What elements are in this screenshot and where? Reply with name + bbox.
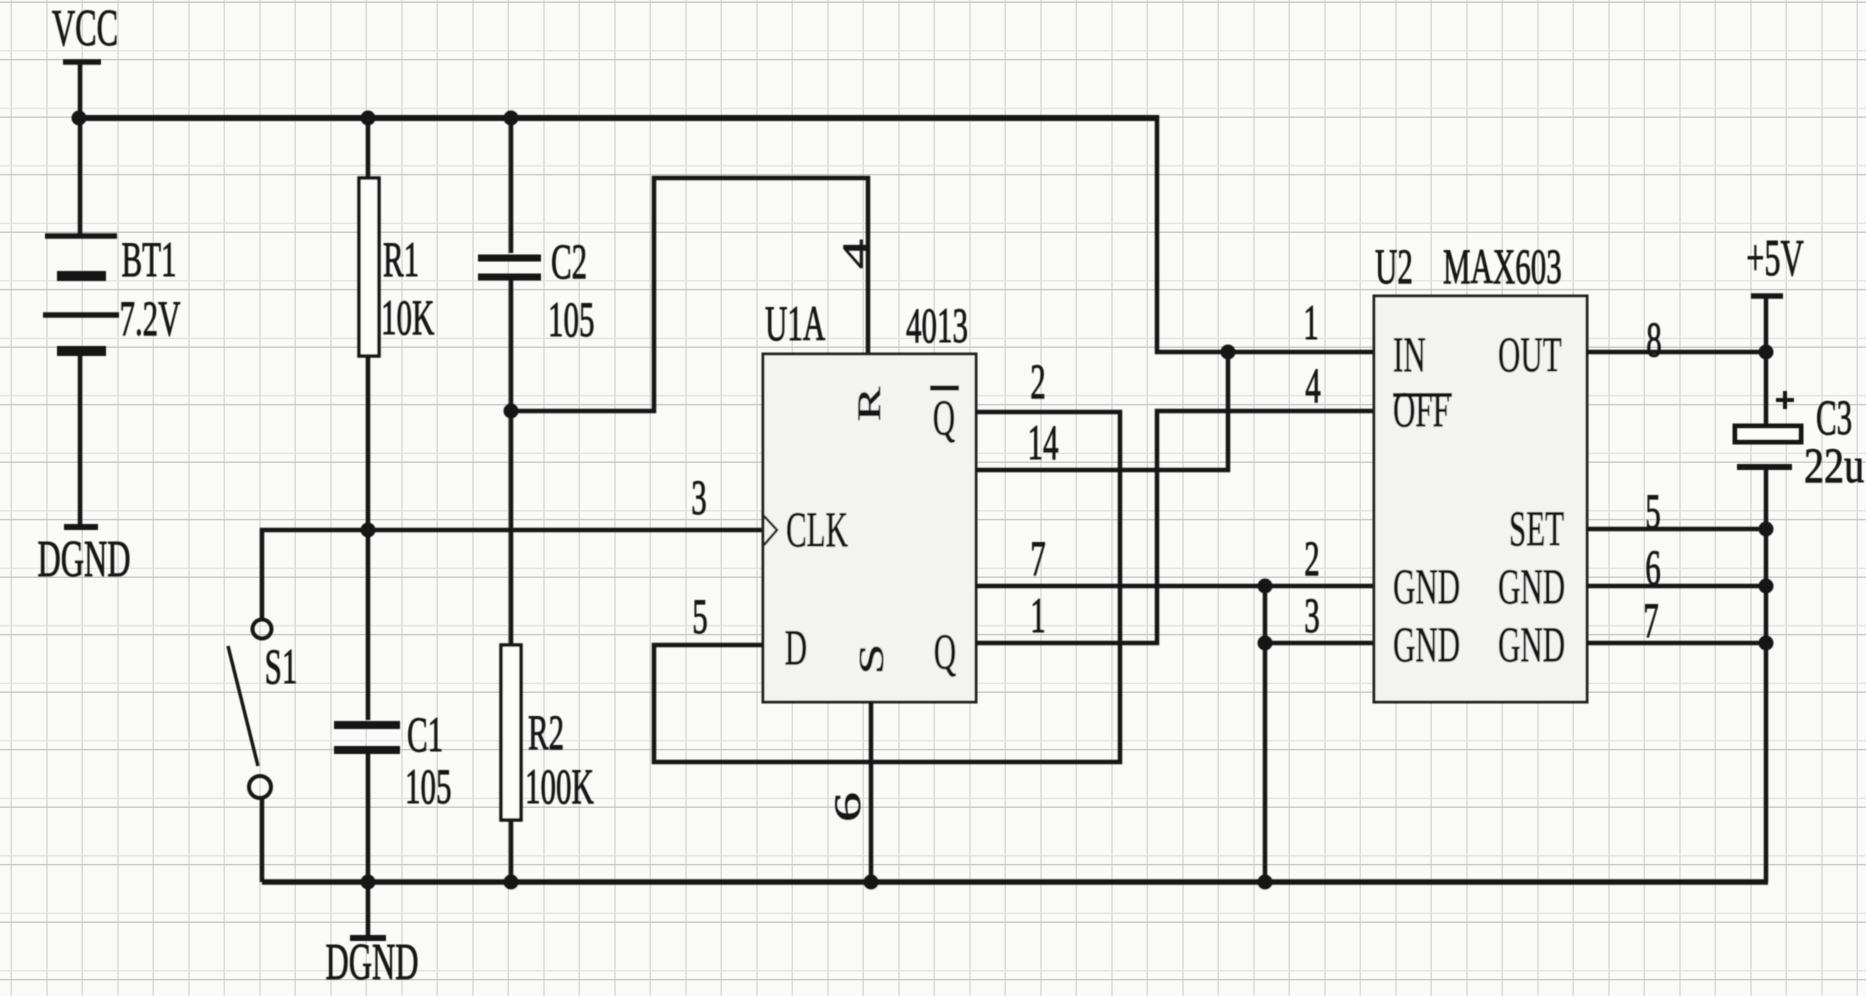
svg-text:GND: GND — [1393, 559, 1460, 614]
svg-text:OFF: OFF — [1393, 382, 1450, 437]
ground DGND bottom — [325, 933, 418, 991]
svg-text:3: 3 — [691, 470, 706, 525]
junction pin7-gnd-vertical — [1258, 579, 1273, 594]
svg-text:100K: 100K — [525, 759, 594, 814]
junction pin6-+5Vline — [1759, 579, 1774, 594]
wire rail to R1 — [366, 118, 371, 178]
pin name OFF with overline — [1393, 382, 1452, 437]
svg-text:GND: GND — [1498, 559, 1565, 614]
wire +5V to C3 — [1764, 352, 1769, 424]
junction S-bottom-rail — [864, 875, 879, 890]
junction gnd vertical bottom rail — [1258, 875, 1273, 890]
svg-text:DGND: DGND — [325, 933, 418, 991]
svg-text:C2: C2 — [551, 234, 587, 289]
junction C1-bottom-rail — [361, 875, 376, 890]
wire VCC drop to U2 IN — [1157, 115, 1374, 352]
wire U1A pin7 to U2 GND pin2 — [976, 584, 1374, 589]
svg-text:D: D — [785, 620, 807, 675]
capacitor C1 — [334, 725, 400, 750]
svg-text:BT1: BT1 — [121, 232, 176, 287]
svg-text:Q: Q — [933, 390, 955, 445]
svg-text:10K: 10K — [381, 290, 434, 345]
svg-text:8: 8 — [1646, 312, 1661, 367]
wire rail to C2 — [509, 118, 514, 253]
svg-text:4: 4 — [1305, 358, 1321, 413]
svg-text:R1: R1 — [383, 232, 419, 287]
wire CLK line (pin 3) — [262, 530, 763, 618]
resistor R2 — [501, 645, 521, 820]
svg-text:U1A: U1A — [765, 296, 825, 351]
switch S1 — [228, 620, 297, 799]
svg-text:2: 2 — [1030, 354, 1045, 409]
junction pin14-IN — [1221, 345, 1236, 360]
wire C2 junction to U1A R input (pin 4) — [511, 178, 868, 411]
wire S1 to bottom rail — [260, 798, 265, 882]
wire U2 SET pin5 — [1587, 527, 1766, 532]
resistor R1 — [359, 178, 379, 356]
junction R1-CLK — [361, 523, 376, 538]
wire U2 GND pin3 — [1265, 641, 1374, 646]
regulator U2 box — [1374, 296, 1587, 702]
wire U2 GND pin7 — [1587, 641, 1766, 646]
svg-text:105: 105 — [548, 292, 594, 347]
pin name Qbar — [930, 388, 959, 445]
svg-text:1: 1 — [1303, 295, 1318, 350]
wire U2 GND pin6 — [1587, 584, 1766, 589]
wire U2 OUT pin8 to +5V node — [1587, 350, 1766, 355]
svg-text:S: S — [852, 643, 891, 674]
wire battery to DGND — [78, 356, 83, 527]
wire R1 to C1 — [366, 356, 371, 720]
svg-text:6: 6 — [827, 792, 868, 822]
svg-text:R2: R2 — [528, 705, 564, 760]
svg-text:OUT: OUT — [1498, 327, 1562, 382]
svg-text:C3: C3 — [1816, 390, 1852, 445]
wire C3 to bottom rail — [1764, 470, 1769, 882]
svg-text:S1: S1 — [265, 639, 298, 694]
capacitor C2 — [478, 258, 541, 277]
wire gnd vertical to bottom rail — [1263, 586, 1268, 882]
svg-text:4: 4 — [835, 239, 876, 269]
node VCC — [52, 0, 118, 118]
capacitor C3 (polarized) — [1735, 391, 1801, 467]
wire R2 to bottom rail — [509, 820, 514, 882]
svg-text:7.2V: 7.2V — [119, 291, 180, 346]
wire C2 to R2 — [509, 280, 514, 645]
svg-text:+5V: +5V — [1746, 229, 1804, 287]
svg-text:1: 1 — [1030, 588, 1045, 643]
svg-text:7: 7 — [1643, 593, 1658, 648]
svg-text:6: 6 — [1645, 540, 1660, 595]
junction OUT-+5V — [1759, 345, 1774, 360]
junction R2-bottom-rail — [504, 875, 519, 890]
junction SET-+5Vline — [1759, 522, 1774, 537]
wire VCC top rail — [79, 115, 1157, 121]
svg-text:CLK: CLK — [786, 502, 848, 557]
svg-text:22u: 22u — [1804, 438, 1864, 493]
junction battery-rail — [72, 111, 87, 126]
svg-text:5: 5 — [692, 589, 707, 644]
svg-text:SET: SET — [1509, 501, 1564, 556]
junction R1-rail — [361, 111, 376, 126]
svg-text:R: R — [852, 386, 888, 421]
svg-text:3: 3 — [1304, 588, 1319, 643]
wire rail to battery — [78, 118, 83, 234]
svg-text:IN: IN — [1393, 327, 1426, 382]
svg-text:105: 105 — [405, 759, 451, 814]
svg-text:Q: Q — [934, 624, 956, 679]
svg-text:MAX603: MAX603 — [1443, 239, 1562, 294]
junction gnd vertical pin3 — [1258, 636, 1273, 651]
node +5V — [1746, 229, 1804, 352]
battery BT1 — [43, 236, 119, 351]
svg-text:5: 5 — [1645, 484, 1660, 539]
svg-text:GND: GND — [1393, 617, 1460, 672]
svg-text:GND: GND — [1498, 617, 1565, 672]
svg-text:C1: C1 — [407, 707, 443, 762]
ground DGND top-left — [37, 527, 130, 588]
clock input chevron — [764, 516, 777, 545]
svg-text:14: 14 — [1028, 415, 1059, 470]
svg-text:VCC: VCC — [52, 0, 118, 57]
wire U1A pin1 Q to U2 OFF — [976, 411, 1374, 643]
svg-text:2: 2 — [1304, 531, 1319, 586]
svg-text:7: 7 — [1030, 531, 1045, 586]
junction pin7-+5Vline — [1759, 636, 1774, 651]
op-amp U1A box — [763, 354, 976, 702]
wire U1A pin14 to IN node — [976, 352, 1228, 470]
wire bottom rail — [262, 879, 1768, 885]
wire U1A pin6 S to bottom rail — [869, 702, 874, 882]
wire U1A pin2 Qbar to D feedback loop — [654, 412, 1120, 762]
junction C2-Rline — [504, 404, 519, 419]
junction C2-rail — [504, 111, 519, 126]
svg-text:4013: 4013 — [906, 298, 968, 353]
svg-text:DGND: DGND — [37, 530, 130, 588]
wire C1 to bottom rail — [366, 754, 371, 938]
svg-text:U2: U2 — [1375, 239, 1413, 294]
